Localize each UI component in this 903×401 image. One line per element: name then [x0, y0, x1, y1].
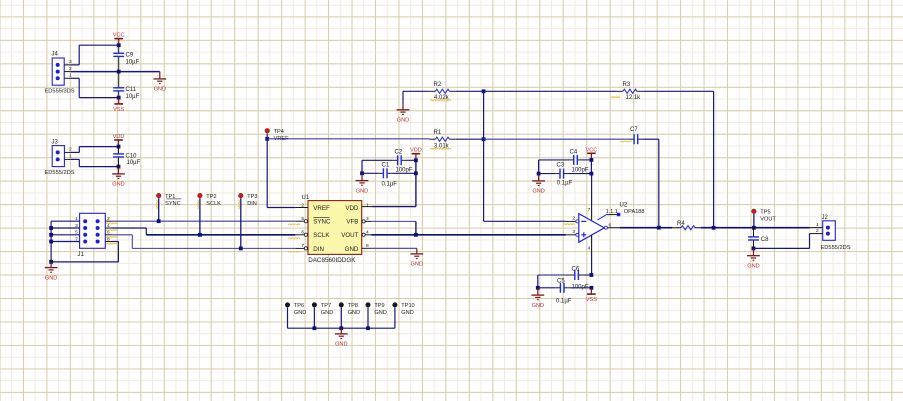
U2 labels: [606, 202, 645, 215]
J2 pin stubs: [810, 228, 823, 234]
svg-text:GND: GND: [112, 182, 124, 188]
U1 pin numbers right: [366, 202, 369, 249]
svg-text:DAC8560IDDGK: DAC8560IDDGK: [308, 257, 356, 264]
squiggle J1 pin8: [106, 242, 118, 245]
power VCC (J4): [113, 33, 125, 46]
power VCC (opamp): [585, 147, 597, 160]
ground (C5 C6): [531, 288, 544, 309]
svg-text:R2: R2: [434, 82, 442, 88]
connector J2: [821, 215, 851, 251]
test point TP9: [366, 303, 387, 316]
svg-text:DIN: DIN: [247, 201, 257, 207]
wire J1 left pins to ground: [51, 221, 118, 262]
svg-text:VSS: VSS: [586, 297, 597, 303]
test point TP7: [312, 303, 333, 316]
svg-text:GND: GND: [374, 310, 386, 316]
svg-text:GND: GND: [747, 263, 759, 269]
U1 part number: [308, 257, 356, 264]
svg-text:C6: C6: [572, 267, 580, 273]
U1 pin 6 stub: [295, 233, 307, 236]
svg-text:12.1k: 12.1k: [626, 95, 642, 101]
connector J3: [45, 140, 75, 176]
J2 pin numbers: [816, 222, 819, 234]
node TP1 junction: [157, 219, 161, 223]
J1 left pin stubs: [51, 221, 80, 241]
J4 pin numbers: [69, 59, 72, 78]
op IC U1 body: [302, 195, 362, 254]
test point TP6: [285, 303, 306, 316]
node C3 right junction: [590, 172, 594, 176]
U1 pin 2 stub: [295, 207, 308, 209]
svg-text:3: 3: [572, 229, 575, 235]
resistor R2: [429, 82, 456, 101]
wire TP8 stem: [340, 308, 342, 329]
power VSS (J4): [113, 98, 124, 113]
squiggle J1 pin2: [106, 222, 118, 225]
svg-text:ED555/3DS: ED555/3DS: [45, 88, 75, 94]
U2 output stub: [604, 222, 620, 229]
wire U1 VFB to VOUT: [371, 221, 416, 234]
svg-text:J1: J1: [78, 252, 85, 258]
wire J1 pin8 to ground rail: [112, 242, 119, 262]
svg-text:0.1µF: 0.1µF: [382, 181, 398, 187]
node C1 left junction: [360, 171, 364, 175]
node C2 right junction: [414, 158, 418, 162]
node C3 left junction: [537, 172, 541, 176]
svg-text:C2: C2: [395, 150, 403, 156]
svg-text:7: 7: [588, 207, 591, 213]
test point TP10: [393, 303, 415, 316]
U1 pin 5 stub: [295, 220, 307, 223]
ground (R2): [397, 103, 410, 124]
svg-text:SYNC: SYNC: [313, 219, 331, 226]
svg-text:TP9: TP9: [374, 303, 384, 309]
wire opamp V+ supply: [590, 160, 592, 221]
wire TP6 stem: [287, 308, 289, 329]
squiggle TP3: [238, 200, 241, 209]
svg-text:R4: R4: [677, 221, 685, 227]
wire feedback to opamp minus: [484, 220, 566, 222]
wire TP2 stem: [199, 198, 201, 235]
svg-text:TP7: TP7: [321, 303, 331, 309]
svg-text:GND: GND: [397, 118, 409, 124]
svg-text:TP2: TP2: [206, 194, 216, 200]
squiggle TP1: [155, 200, 158, 209]
wire J3 pin1 to GND rail: [71, 159, 119, 166]
svg-text:1: 1: [816, 222, 819, 228]
U1 pin 1 stub: [362, 206, 372, 208]
squiggle U1 DIN: [288, 250, 300, 253]
wire TP1 stem: [158, 198, 160, 221]
svg-text:C3: C3: [557, 163, 565, 169]
wire VREF to DAC pin2: [267, 207, 295, 209]
ground (J1): [45, 262, 58, 281]
U2 pin 5 stub: [598, 213, 621, 220]
ground (C8): [747, 248, 760, 269]
wire TP4 stem: [266, 133, 268, 207]
svg-text:GND: GND: [321, 310, 333, 316]
wire feedback vertical: [483, 91, 485, 221]
U2 pin 3 stub: [566, 229, 579, 236]
node J4 VSS junction: [117, 96, 121, 100]
wire R2 left: [403, 91, 429, 102]
wire C2 left down: [361, 160, 363, 173]
svg-text:4: 4: [588, 246, 591, 252]
svg-text:TP4: TP4: [274, 129, 284, 135]
wire C6 left down: [537, 275, 539, 288]
node J4 mid junction: [117, 70, 121, 74]
svg-text:100pF: 100pF: [396, 167, 413, 173]
svg-text:10µF: 10µF: [126, 59, 140, 65]
svg-text:1: 1: [366, 202, 369, 208]
svg-text:0.1µF: 0.1µF: [556, 298, 572, 304]
U2 pin 7 label: [588, 207, 591, 213]
wire U1 VOUT net: [371, 234, 566, 236]
node J1 pin3 junction: [49, 226, 53, 230]
svg-text:VCC: VCC: [113, 33, 125, 39]
wire TP5 stem: [753, 214, 755, 228]
J3 pin stubs: [64, 152, 70, 159]
resistor R3: [484, 82, 644, 101]
svg-text:ED555/2DS: ED555/2DS: [821, 245, 851, 251]
wire C8 to J2 pin2: [754, 234, 810, 249]
svg-text:C8: C8: [761, 237, 769, 243]
node C5 right junction: [590, 286, 594, 290]
svg-text:VFB: VFB: [346, 219, 358, 226]
node J3 VDD junction: [117, 145, 121, 149]
ground (C1 C2): [356, 173, 369, 194]
svg-text:J4: J4: [52, 52, 59, 58]
svg-text:J3: J3: [52, 140, 59, 146]
svg-text:10µF: 10µF: [127, 160, 141, 166]
test point TP1: [157, 193, 182, 206]
squiggle U2 minus: [563, 223, 575, 226]
node TP7 rail junction: [313, 326, 317, 330]
capacitor C1: [362, 162, 416, 187]
node C8 bottom junction: [752, 247, 756, 251]
node TP9 rail junction: [366, 326, 370, 330]
U1 pin numbers left: [301, 202, 304, 249]
svg-text:C11: C11: [126, 87, 137, 93]
ground (U1 pin8): [410, 248, 423, 267]
svg-text:1: 1: [69, 73, 72, 79]
wire TP7 stem: [313, 308, 315, 329]
wire VREF row: [267, 138, 429, 140]
resistor R4: [672, 221, 701, 230]
svg-text:SCLK: SCLK: [313, 232, 330, 239]
svg-text:100pF: 100pF: [572, 167, 589, 173]
wire DIN jog: [112, 235, 133, 249]
svg-text:TP6: TP6: [294, 303, 304, 309]
svg-text:C10: C10: [126, 153, 138, 159]
svg-text:0.1µF: 0.1µF: [557, 181, 573, 187]
node C4 right junction: [590, 158, 594, 162]
svg-text:GND: GND: [345, 246, 359, 253]
svg-text:TP10: TP10: [401, 303, 414, 309]
power VDD (J3): [113, 134, 125, 147]
op-amp U2 body: [579, 214, 605, 243]
svg-text:VDD: VDD: [410, 148, 422, 154]
squiggle J1 pin4: [106, 229, 118, 232]
node J3 GND junction: [117, 165, 121, 169]
node J1 pin7 junction: [49, 240, 53, 244]
svg-text:TP3: TP3: [247, 194, 257, 200]
svg-text:C5: C5: [557, 279, 565, 285]
node TP2 junction: [198, 233, 202, 237]
wire SCLK jog: [112, 228, 147, 235]
node C6 right junction: [590, 273, 594, 277]
svg-text:VSS: VSS: [113, 107, 124, 113]
wire C4 left down: [538, 160, 540, 174]
U2 pin 2 stub: [566, 216, 579, 223]
capacitor C9: [113, 45, 139, 71]
wire C7 row: [484, 138, 629, 140]
power VSS (opamp): [586, 288, 597, 303]
node output-C7 junction: [657, 226, 661, 230]
U1 pin 3 stub: [362, 220, 371, 223]
wire TP10 stem: [394, 308, 396, 329]
wire opamp output: [620, 227, 672, 229]
svg-text:J2: J2: [822, 215, 829, 221]
svg-text:ED555/2DS: ED555/2DS: [45, 170, 75, 176]
squiggle U1 SCLK: [288, 237, 300, 240]
svg-text:GND: GND: [294, 310, 306, 316]
wire TP3 stem: [240, 198, 242, 248]
capacitor C10: [113, 147, 141, 167]
svg-text:GND: GND: [401, 310, 413, 316]
squiggle J1 pin6: [106, 236, 118, 239]
svg-text:R3: R3: [623, 82, 631, 88]
capacitor C4: [539, 149, 592, 173]
node TP4 junction: [265, 137, 269, 141]
ground (J4 mid rail): [153, 72, 166, 93]
squiggle C7: [620, 140, 632, 143]
svg-text:GND: GND: [356, 188, 368, 194]
node TP5 junction: [752, 226, 756, 230]
svg-text:U1: U1: [302, 195, 310, 201]
svg-text:U2: U2: [620, 202, 628, 208]
U2 pin 4 label: [588, 246, 591, 252]
ground (J3): [112, 167, 125, 188]
svg-text:VOUT: VOUT: [760, 217, 776, 223]
squiggle R1 value: [430, 147, 451, 150]
wire DIN net: [132, 247, 295, 249]
J4 pin stubs: [64, 65, 71, 78]
svg-text:C1: C1: [382, 162, 390, 168]
J1 right pin numbers: [107, 216, 110, 242]
svg-text:SCLK: SCLK: [206, 201, 221, 207]
wire J4 pin3 to VCC rail: [71, 45, 119, 65]
svg-text:C4: C4: [570, 149, 578, 155]
svg-text:VDD: VDD: [113, 134, 125, 140]
svg-text:R1: R1: [434, 130, 442, 136]
svg-text:3: 3: [69, 59, 72, 65]
svg-text:GND: GND: [532, 189, 544, 195]
capacitor C5: [538, 279, 592, 305]
capacitor C3: [539, 163, 592, 187]
wire J4 pin2 mid rail: [71, 71, 160, 73]
capacitor C2: [362, 150, 416, 174]
wire R3 right down: [643, 91, 713, 228]
capacitor C8: [748, 228, 769, 249]
wire TP ground rail: [288, 327, 395, 329]
svg-text:TP8: TP8: [348, 303, 358, 309]
node J1 pin5 junction: [49, 233, 53, 237]
wire opamp V- supply: [591, 235, 593, 275]
ground (TP rail): [335, 328, 348, 347]
U1 pin names right: [341, 205, 359, 253]
svg-text:DIN: DIN: [313, 246, 324, 253]
node J4 VCC junction: [117, 43, 121, 47]
node R2-R3 junction: [482, 89, 486, 93]
connector J4: [45, 52, 75, 95]
ground (C3 C4): [532, 174, 545, 195]
J1 left pin numbers: [75, 216, 78, 242]
svg-text:2: 2: [572, 216, 575, 222]
capacitor C7: [629, 127, 643, 144]
svg-text:GND: GND: [411, 262, 423, 268]
svg-text:TP5: TP5: [760, 210, 770, 216]
node TP8 rail junction: [339, 326, 343, 330]
wire TP9 stem: [367, 308, 369, 329]
connector J1: [78, 213, 106, 257]
svg-text:6: 6: [609, 222, 612, 228]
wire R1 right: [456, 138, 484, 140]
svg-text:2: 2: [816, 228, 819, 234]
svg-text:VDD: VDD: [345, 205, 359, 212]
test point TP4: [265, 129, 289, 142]
svg-text:GND: GND: [348, 310, 360, 316]
test point TP3: [239, 193, 258, 206]
node C5 left junction: [536, 286, 540, 290]
svg-text:C7: C7: [630, 127, 638, 133]
capacitor C11: [113, 72, 139, 100]
svg-text:GND: GND: [45, 275, 57, 281]
test point TP5: [752, 209, 777, 222]
node J1 ground junction: [49, 260, 53, 264]
J1 right pin stubs: [105, 221, 111, 241]
wire R2 right: [456, 90, 484, 92]
squiggle U1 SYNC: [288, 223, 300, 226]
U1 pin 7 stub: [295, 247, 307, 250]
squiggle TP2: [197, 200, 200, 209]
test point TP8: [339, 303, 360, 316]
svg-text:VOUT: VOUT: [341, 232, 358, 239]
svg-text:10µF: 10µF: [126, 94, 140, 100]
wire U1 GND: [371, 247, 417, 249]
power VDD (U1): [410, 148, 422, 161]
wire J4 pin1 to VSS rail: [71, 78, 119, 97]
wire SCLK net: [146, 234, 295, 236]
wire SYNC net: [112, 220, 296, 222]
J3 pin numbers: [69, 147, 72, 160]
capacitor C6: [538, 267, 592, 291]
resistor R1: [429, 130, 456, 150]
wire R4 right: [701, 227, 810, 229]
wire C7 to output: [643, 139, 659, 228]
wire U1 VDD up: [371, 160, 416, 206]
test point TP2: [198, 193, 221, 206]
node VFB-VOUT junction: [414, 233, 418, 237]
svg-text:OPA188: OPA188: [624, 209, 645, 215]
svg-text:VREF: VREF: [313, 205, 330, 212]
squiggle R3 value: [611, 96, 620, 99]
U1 pin names left: [313, 205, 331, 253]
svg-text:VCC: VCC: [585, 147, 597, 153]
U1 pin 4 stub: [362, 233, 371, 236]
node C1 right junction: [414, 171, 418, 175]
U1 pin 8 stub: [362, 247, 372, 249]
svg-text:GND: GND: [532, 303, 544, 309]
svg-text:GND: GND: [154, 87, 166, 93]
node output-R3 junction: [712, 226, 716, 230]
svg-text:GND: GND: [335, 342, 347, 348]
node R1-net junction: [482, 137, 486, 141]
svg-text:SYNC: SYNC: [165, 201, 181, 207]
node TP3 junction: [239, 247, 243, 251]
squiggle R2 value: [430, 99, 451, 102]
wire J3 pin2 to VDD rail: [71, 147, 119, 153]
svg-text:C9: C9: [126, 53, 134, 59]
